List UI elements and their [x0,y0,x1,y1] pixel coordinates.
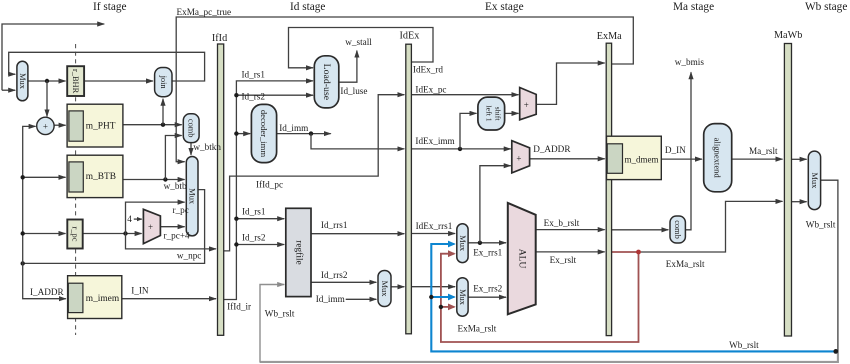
svg-text:IdEx_imm: IdEx_imm [415,136,454,146]
memory m_imem [68,276,122,319]
svg-text:w_btb: w_btb [164,181,187,191]
node blue tap [429,295,433,299]
svg-text:Mux: Mux [810,172,819,189]
wire IdEx_imm into D_ADDR adder [411,148,510,150]
svg-text:Mux: Mux [380,281,389,298]
node ir tap rs2 [234,93,238,97]
svg-text:MaWb: MaWb [774,30,802,41]
wire join output loop to If Mux input 1 [9,52,205,81]
node w_npc / left vertical junction [21,261,25,265]
node r_pc tap [21,231,25,235]
svg-text:Mux: Mux [188,188,197,205]
svg-text:comb: comb [187,119,196,138]
svg-text:m_BTB: m_BTB [86,172,116,182]
wire ir into decoder_imm [236,133,250,135]
wire w_bmis comb output up [685,72,691,230]
svg-text:Mux: Mux [458,289,467,306]
wire IfId_ir out up to Id_rs1 into Load-use [224,81,313,300]
svg-text:m_imem: m_imem [86,294,120,304]
svg-text:Wb stage: Wb stage [805,1,847,13]
svg-text:+: + [148,222,153,232]
logic Load-use [314,56,339,108]
wire IdEx_rd feedback loop into Load-use input 1 [289,28,434,68]
logic join [155,68,172,97]
svg-text:regfile: regfile [293,240,304,264]
wire w_npc distribution vertical [23,126,36,263]
svg-text:Mux: Mux [458,235,467,252]
svg-text:w_npc: w_npc [177,251,202,261]
wire m_PHT output into comb [123,124,182,126]
svg-text:IfId_ir: IfId_ir [227,301,251,311]
wire I_IN m_imem out into IfId [122,298,216,300]
node PHT out branch [161,123,165,127]
wire ExMa_pc_true long loop into BTB Mux input 1 [176,17,633,162]
svg-text:ALU: ALU [516,249,527,269]
mux If Mux [17,61,28,101]
svg-text:Ex_rrs1: Ex_rrs1 [473,248,502,258]
wire into If Mux input 2 [2,89,15,91]
memory m_BTB [67,155,123,197]
wire Ex_b_rslt ALU out into ExMa [536,229,605,231]
wire Id_luse / w_stall Load-use output up [339,51,357,83]
svg-text:IfId: IfId [212,33,227,44]
node ir tap regfile rs2 [234,242,238,246]
svg-text:If stage: If stage [93,1,127,13]
wire Ex_rrs2 Mux out into ALU input 2 [468,296,506,298]
svg-text:IdEx_pc: IdEx_pc [415,84,446,94]
wire ExMa_rslt red forwarding loop into Ex Mux1 input 3 [441,252,639,342]
wire w_btkn comb down into BTB Mux top [190,143,192,155]
svg-text:Ma_rslt: Ma_rslt [749,146,778,156]
mux Ex Mux 1 [457,224,468,263]
wire + output into m_PHT [54,124,66,126]
wire If Mux output to r_BHR [28,80,66,82]
svg-text:Ex_rrs2: Ex_rrs2 [473,284,502,294]
logic alignextend [704,124,732,192]
svg-text:w_bmis: w_bmis [675,57,705,67]
wire Id_rrs2 regfile out into Id Mux [311,281,376,283]
svg-text:comb: comb [673,220,682,239]
svg-text:Ex_b_rslt: Ex_b_rslt [544,218,580,228]
mux Id Mux [378,271,391,307]
adder Ex + trapezoid [520,88,537,120]
svg-text:decoder_imm: decoder_imm [259,110,269,158]
mux Wb Mux [808,151,820,210]
svg-text:+: + [516,153,521,163]
svg-text:r_pc+4: r_pc+4 [164,230,191,240]
wire Id Mux output into IdEx [391,286,404,288]
register IfId bar [218,44,224,335]
svg-text:r_pc: r_pc [71,227,80,242]
svg-text:Ex stage: Ex stage [485,1,524,13]
wire blue branch into Ex Mux2 input 2 [431,296,454,298]
node ir tap decoder [234,131,238,135]
wire constant 4 stub [134,218,142,220]
logic comb (Ma) [670,216,685,243]
svg-text:I_ADDR: I_ADDR [30,287,65,297]
wire r_pc branch up into BTB Mux input 3 [126,202,185,233]
wire MaWb out 1 into Wb Mux [792,158,807,160]
ALU trapezoid [508,203,536,314]
wire IdEx_rrs2 into Ex Mux 2 [411,286,455,288]
node red tap [439,305,443,309]
svg-text:Id_luse: Id_luse [340,86,367,96]
wire w_btb branch up into comb input 2 [165,136,181,180]
node mux out branch [45,79,49,83]
svg-text:Mux: Mux [18,73,27,90]
wire into r_pc [23,233,66,235]
wire I_ADDR into m_imem [23,263,66,298]
svg-text:IdEx: IdEx [400,31,420,42]
wire branch up into shift left 1 [460,113,477,148]
svg-text:IdEx_rrs1: IdEx_rrs1 [416,221,453,231]
wire IfId_pc out up and into IdEx [224,95,405,251]
svg-text:Id_imm: Id_imm [316,294,345,304]
svg-text:ExMa_rslt: ExMa_rslt [666,259,705,269]
wire +4 adder output r_pc+4 into BTB Mux input 4 [160,226,184,228]
wire r_pc branch down into IfId (pc) [126,234,217,249]
adder + circle [37,117,54,134]
wire IdEx_pc into Ex adder [411,94,518,96]
register ExMa bar [606,43,611,335]
wire Id_rs1 into regfile [236,218,284,220]
svg-text:Ex_rslt: Ex_rslt [550,255,577,265]
wire Ma_rslt alignextend out into MaWb [732,158,783,160]
wire Wb_rslt gray return bottom [260,351,838,362]
svg-text:Wb_rslt: Wb_rslt [265,308,295,318]
svg-text:shiftleft 1: shiftleft 1 [484,105,502,121]
wire Id_rs2 into Load-use [236,94,313,96]
register MaWb bar [784,44,791,337]
wire Ex_b_rslt through ExMa into comb [612,229,669,231]
wire w_btb m_BTB out into BTB Mux [123,179,185,181]
svg-text:join: join [159,75,168,90]
logic shift left 1 [478,97,505,130]
node r_pc out branch [123,231,127,235]
wire Ex_rslt ALU out into ExMa [536,251,605,253]
node w_btb branch [163,177,167,181]
wire D_ADDR adder output into m_dmem [530,158,605,160]
logic comb (If) [183,114,199,143]
mux Ex Mux 2 [457,278,468,317]
wire Id_rs2 into regfile [236,244,284,246]
svg-text:Id_rrs1: Id_rrs1 [321,220,348,230]
svg-text:Id_rs1: Id_rs1 [242,206,266,216]
svg-text:Wb_rslt: Wb_rslt [806,220,836,230]
wire shift left 1 output into Ex adder [505,112,519,114]
node blue-black junction [833,349,838,354]
svg-text:alignextend: alignextend [713,138,723,179]
svg-text:D_ADDR: D_ADDR [533,144,571,154]
wire Wb_rslt gray return into regfile write port [260,285,284,363]
svg-text:m_dmem: m_dmem [625,154,659,164]
svg-text:Id_rs2: Id_rs2 [242,233,266,243]
svg-text:4: 4 [127,214,132,224]
register r_BHR [67,66,84,96]
wire Wb_rslt blue forwarding into Ex Mux1 input 2 [431,244,836,351]
svg-text:I_IN: I_IN [131,285,149,295]
wire branch up into join bottom [162,99,164,125]
wire D_IN m_dmem out into alignextend [661,158,702,160]
clock dashed line [75,44,77,335]
wire ExMa_rslt red segment [612,251,639,253]
adder +4 trapezoid [143,209,160,243]
svg-text:IfId_pc: IfId_pc [256,180,283,190]
node red junction on ExMa_rslt [636,250,641,255]
node Ex_rrs1 branch [478,241,482,245]
wire Ex_rrs1 Mux out into ALU input 1 [468,242,506,244]
node ir tap regfile rs1 [234,217,238,221]
logic decoder_imm [251,104,276,162]
svg-text:Wb_rslt: Wb_rslt [729,340,759,350]
wire Wb Mux output down (dark part) [821,180,838,351]
node imm branch to shifter [458,147,462,151]
wire r_pc output into +4 adder [83,233,142,235]
wire r_BHR output into join [84,80,153,82]
svg-text:Id_imm: Id_imm [279,123,308,133]
svg-text:Load-use: Load-use [321,64,332,101]
svg-text:+: + [524,100,529,110]
wire BHR update stub (left edge, up, right stub arrow) [2,24,104,90]
memory m_dmem [607,136,662,179]
svg-text:Id_rrs2: Id_rrs2 [321,270,348,280]
wire Id_rrs1 regfile out into IdEx [311,233,404,235]
wire ExMa_rslt black part into MaWb [639,201,783,252]
node Id_imm branch [309,131,313,135]
svg-text:Id_rs1: Id_rs1 [242,69,266,79]
svg-text:D_IN: D_IN [665,145,686,155]
node BTB tap [21,175,25,179]
svg-text:w_btkn: w_btkn [193,142,221,152]
wire MaWb out 2 into Wb Mux [792,201,807,203]
svg-text:Id stage: Id stage [290,1,325,13]
svg-text:Id_rs2: Id_rs2 [242,92,266,102]
register IdEx bar [406,44,412,334]
svg-text:ExMa: ExMa [597,31,622,42]
svg-text:Ma stage: Ma stage [673,1,714,13]
wire Ex adder output up into ExMa [536,63,605,104]
svg-text:ExMa_rslt: ExMa_rslt [458,324,497,334]
svg-text:r_BHR: r_BHR [71,69,80,94]
mux BTB Mux [186,157,198,236]
svg-text:w_stall: w_stall [345,37,372,47]
svg-text:r_pc: r_pc [173,205,189,215]
wire Id_imm branch down into IdEx (IdEx_imm) [311,134,404,149]
wire branch down into + circle [46,81,48,116]
svg-text:ExMa_pc_true: ExMa_pc_true [177,7,232,17]
wire Id_imm stub into Id Mux [346,298,377,300]
wire Ex_rrs1 branch up into D_ADDR adder input 2 [480,166,511,243]
svg-text:+: + [43,121,48,131]
adder D_ADDR + trapezoid [512,141,530,173]
wire Id_imm decoder output stub [277,133,331,135]
svg-text:m_PHT: m_PHT [86,122,116,132]
wire red branch into Ex Mux2 input 3 [441,306,454,308]
wire into m_BTB [23,176,66,178]
regfile [286,208,311,296]
wire IdEx_rrs1 into Ex Mux 1 [411,233,455,235]
svg-text:IdEx_rd: IdEx_rd [413,64,444,74]
wire w_npc loop (Mux2 out, down, left to distribution tap) [24,190,205,264]
memory m_PHT [67,104,123,147]
register r_pc [67,220,82,249]
